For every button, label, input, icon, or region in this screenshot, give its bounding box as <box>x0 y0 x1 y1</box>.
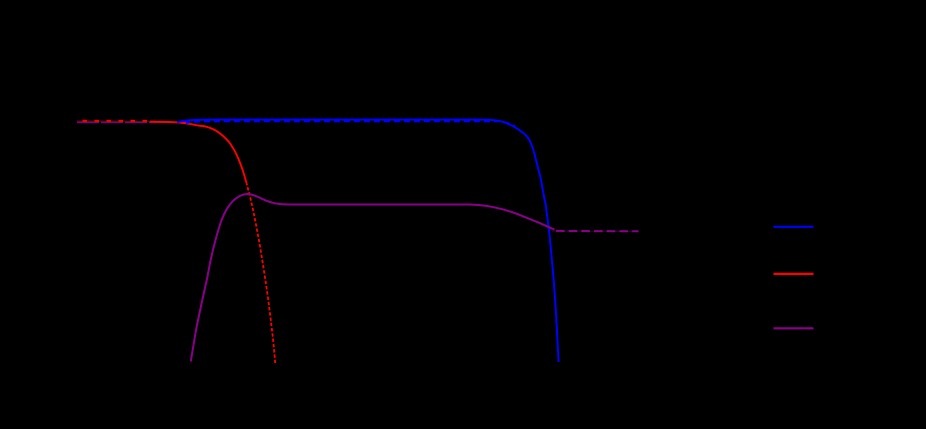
red dashed steep drop <box>246 182 275 363</box>
purple solid curve (rise, peak, plateau, decline) <box>191 194 555 362</box>
blue dashed companion line <box>186 121 515 126</box>
legend red line <box>774 273 814 275</box>
legend purple line <box>774 327 814 329</box>
purple faint underlay at tail <box>552 230 638 232</box>
blue solid curve <box>177 120 559 362</box>
red dashed line top-left <box>83 120 153 122</box>
faint red connective line top-left <box>77 120 160 122</box>
red solid curve (descending knee) <box>150 122 246 182</box>
purple dashed tail <box>556 230 639 232</box>
purple thin line top-left (near unity level) <box>77 121 186 123</box>
legend blue line <box>774 226 814 228</box>
